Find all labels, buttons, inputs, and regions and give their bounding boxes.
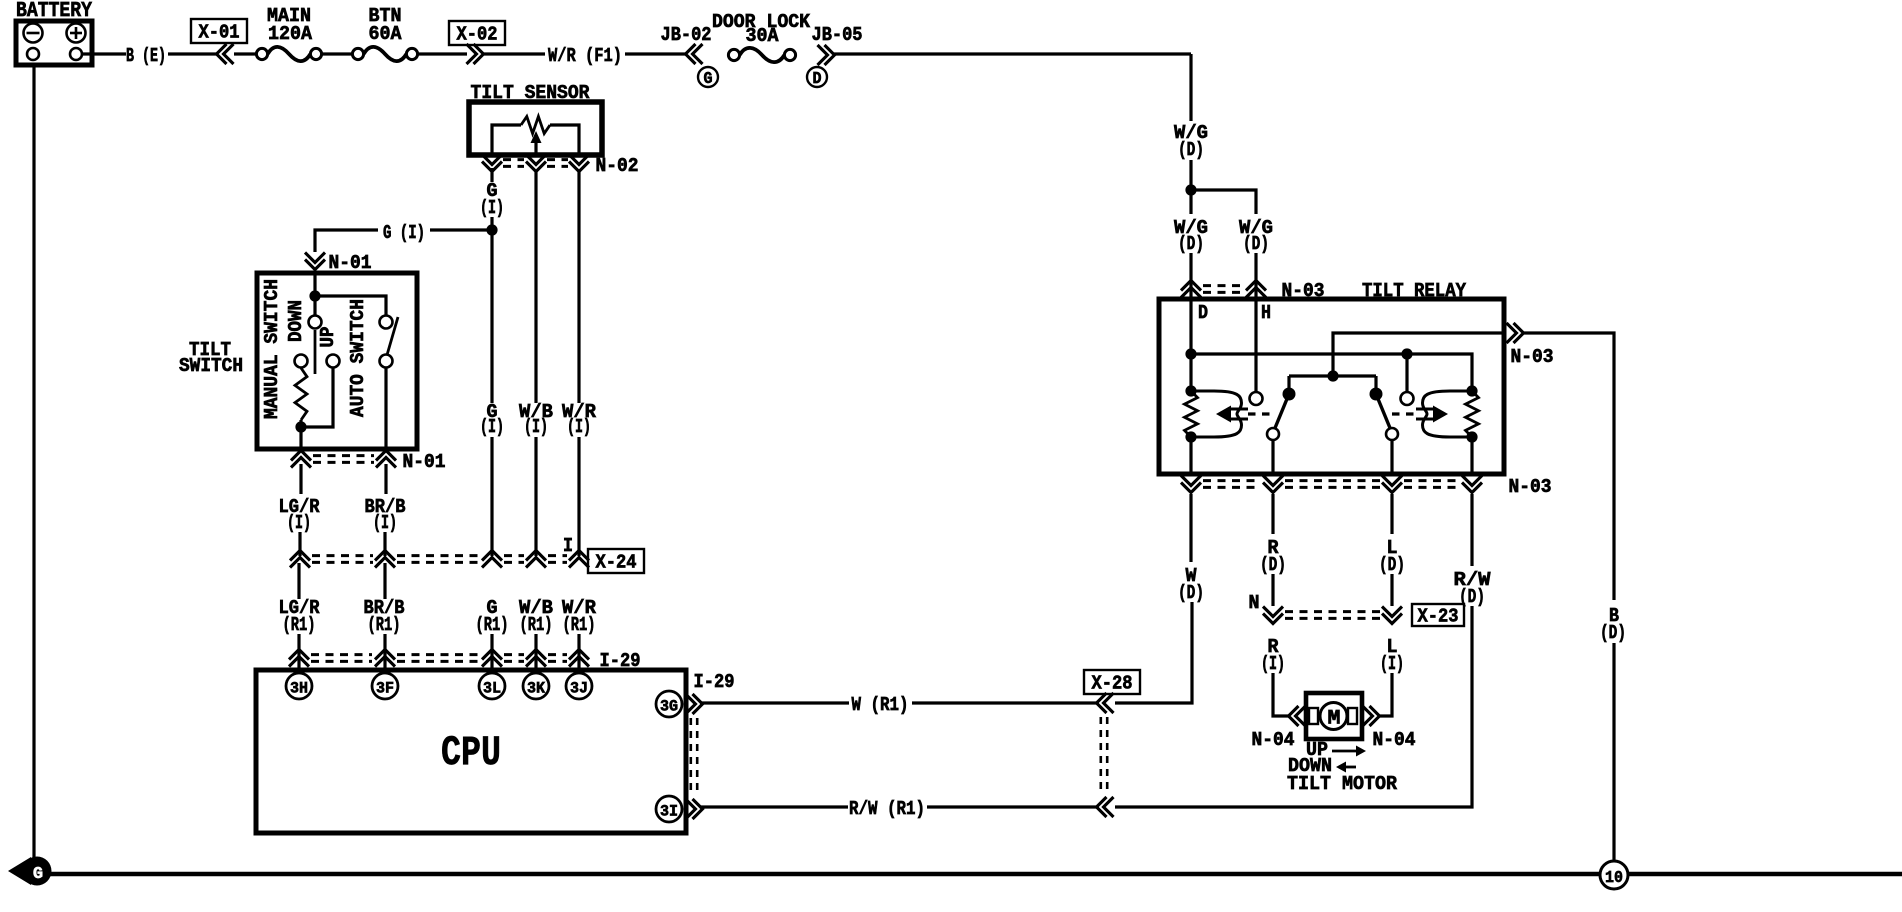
connector N-04 left xyxy=(1252,706,1306,751)
node contact L pivot xyxy=(1283,376,1296,401)
pin 3H xyxy=(286,673,312,699)
wire R/W(D) upper xyxy=(1470,494,1473,566)
svg-text:(D): (D) xyxy=(1243,233,1269,255)
svg-text:N-04: N-04 xyxy=(1252,729,1295,751)
wire coil R to box bottom xyxy=(1470,437,1473,474)
label LG/R (I) xyxy=(279,496,321,534)
label L (I) xyxy=(1380,636,1404,675)
wire L(D) lower xyxy=(1390,574,1393,606)
auto switch top contact xyxy=(380,316,393,329)
svg-text:X-28: X-28 xyxy=(1092,673,1133,695)
ground G symbol xyxy=(8,857,52,886)
wire G to X-24 xyxy=(490,437,493,556)
label W/G (D) upper xyxy=(1174,122,1208,161)
svg-text:N: N xyxy=(1249,592,1260,614)
wire B(D) down to bus xyxy=(1612,643,1615,874)
connector X-23 xyxy=(1263,604,1464,628)
sensor pot wiper xyxy=(531,131,542,153)
node contact R pivot xyxy=(1370,376,1383,401)
wire W/R to I-29 xyxy=(577,634,580,673)
label LG/R (R1) xyxy=(279,597,321,636)
wire 3I to R/W(R1) xyxy=(700,805,848,808)
svg-text:H: H xyxy=(1261,302,1271,324)
label G (I) mid xyxy=(480,401,504,438)
manual blade xyxy=(314,330,317,374)
svg-text:(R1): (R1) xyxy=(563,614,596,636)
connector N-01 top xyxy=(305,252,372,274)
label R/W (D) xyxy=(1454,569,1492,608)
tilt sensor box xyxy=(469,82,602,155)
wire G(I) horizontal xyxy=(315,230,488,252)
label W/R (I) mid xyxy=(562,401,597,438)
wire contact L down xyxy=(1271,440,1274,474)
svg-text:I: I xyxy=(563,535,573,557)
pin H contact circle xyxy=(1250,392,1263,405)
svg-text:(R1): (R1) xyxy=(520,614,553,636)
svg-text:X-02: X-02 xyxy=(457,24,498,46)
svg-text:(I): (I) xyxy=(373,512,397,534)
wire coil L to box bottom xyxy=(1189,437,1192,474)
label W (R1) xyxy=(852,694,909,716)
connector X-01 xyxy=(191,19,247,64)
tilt relay box xyxy=(1159,280,1504,474)
pin 3G xyxy=(656,691,682,717)
wire X-02 to W/R(F1) xyxy=(484,52,545,55)
manual MANUAL contact xyxy=(295,355,308,368)
svg-text:X-01: X-01 xyxy=(199,22,240,44)
label W (D) xyxy=(1178,565,1204,604)
manual DOWN contact xyxy=(309,316,322,329)
label R (I) xyxy=(1261,636,1285,675)
fuse BTN 60A xyxy=(352,5,417,61)
label N xyxy=(1249,592,1260,614)
wire pin D vertical xyxy=(1189,299,1192,391)
wire W/B to I-29 xyxy=(534,634,537,673)
connector X-02 xyxy=(449,21,505,64)
svg-text:N-03: N-03 xyxy=(1511,346,1554,368)
pin 3I xyxy=(656,796,682,822)
wire BR/B to X-24 xyxy=(383,532,386,556)
wire left leg to N-03 xyxy=(1189,190,1192,299)
label W/G (D) right leg xyxy=(1239,217,1273,255)
label B (E) xyxy=(126,45,166,67)
label TILT MOTOR xyxy=(1287,773,1398,795)
wire L(D) upper xyxy=(1390,494,1393,534)
svg-text:10: 10 xyxy=(1605,869,1623,888)
svg-text:(I): (I) xyxy=(287,512,311,534)
label W/B (R1) xyxy=(519,597,553,636)
node G junction xyxy=(486,224,497,235)
wire auto bottom xyxy=(384,368,387,449)
wire G to junction xyxy=(490,168,493,252)
sensor pot resistor xyxy=(492,117,579,154)
ground bus xyxy=(50,872,1902,877)
svg-text:R/W (R1): R/W (R1) xyxy=(849,798,925,820)
battery xyxy=(16,0,92,65)
wire W/G to junction xyxy=(1189,160,1192,190)
svg-text:3G: 3G xyxy=(660,698,678,716)
wire W/R(F1) to JB-02 xyxy=(625,52,686,55)
svg-text:MANUAL SWITCH: MANUAL SWITCH xyxy=(261,279,283,419)
connector N-02 xyxy=(482,155,639,178)
svg-text:3L: 3L xyxy=(483,680,501,698)
wire LG/R upper xyxy=(299,464,302,494)
label G (I) sensor xyxy=(480,180,504,219)
label R (D) xyxy=(1260,537,1286,576)
wire W/R to X-24 xyxy=(577,437,580,556)
label R/W (R1) xyxy=(849,798,925,820)
node coil L top xyxy=(1185,385,1196,396)
svg-text:(D): (D) xyxy=(1379,554,1405,576)
svg-text:(I): (I) xyxy=(1380,653,1404,675)
connector JB-02 xyxy=(661,24,719,89)
pin H label xyxy=(1261,302,1271,324)
fuse MAIN 120A xyxy=(256,5,321,61)
node pin D junction xyxy=(1185,348,1196,359)
wire LG/R to X-24 xyxy=(298,532,301,556)
svg-text:CPU: CPU xyxy=(441,729,501,777)
node relay bus junction xyxy=(1401,348,1412,359)
node coil L bottom xyxy=(1185,431,1196,442)
node manual junction xyxy=(295,421,306,432)
svg-text:W/R (F1): W/R (F1) xyxy=(548,45,622,67)
wire R/W(R1) to X-28 xyxy=(927,805,1099,808)
node switch split xyxy=(309,290,320,301)
label W/G (D) left leg xyxy=(1174,217,1208,255)
wire G to I-29 xyxy=(490,634,493,673)
svg-text:DOWN: DOWN xyxy=(285,300,307,342)
svg-text:N-03: N-03 xyxy=(1509,476,1552,498)
svg-text:3I: 3I xyxy=(660,803,678,821)
svg-text:W (R1): W (R1) xyxy=(852,694,909,716)
svg-text:UP: UP xyxy=(317,327,339,348)
svg-text:(I): (I) xyxy=(524,416,548,438)
svg-text:I-29: I-29 xyxy=(694,671,735,693)
svg-text:JB-02: JB-02 xyxy=(661,24,712,46)
contact R blade xyxy=(1376,394,1390,428)
node ground 10 xyxy=(1600,861,1628,889)
svg-text:(I): (I) xyxy=(480,416,504,438)
connector X-28 xyxy=(1084,670,1140,817)
label W/R (F1) xyxy=(548,45,622,67)
wire W(D) upper xyxy=(1189,494,1192,562)
wire contact R down xyxy=(1390,440,1393,474)
wire exit to right edge xyxy=(1524,333,1614,600)
svg-text:G (I): G (I) xyxy=(383,222,425,244)
wire W/R long xyxy=(577,170,580,403)
tilt switch box xyxy=(257,273,417,449)
svg-text:60A: 60A xyxy=(369,23,403,45)
wire G long xyxy=(490,252,493,403)
svg-text:(R1): (R1) xyxy=(368,614,401,636)
wire X-01 to fuse MAIN xyxy=(234,52,257,55)
relay coil L xyxy=(1192,391,1272,437)
connector N-03 top xyxy=(1181,280,1325,302)
wire JB-05 to corner xyxy=(834,52,1191,55)
wire battery ground xyxy=(32,65,35,858)
label BR/B (R1) xyxy=(364,597,405,636)
label MANUAL SWITCH xyxy=(261,279,283,419)
svg-text:(R1): (R1) xyxy=(283,614,316,636)
aux contact circle xyxy=(1401,392,1414,405)
svg-text:X-23: X-23 xyxy=(1418,606,1459,628)
wire contact bridge xyxy=(1289,374,1376,377)
svg-text:I-29: I-29 xyxy=(600,650,641,672)
wire right leg to N-03 xyxy=(1254,253,1257,299)
wire UP leg xyxy=(301,368,333,427)
svg-text:B (E): B (E) xyxy=(126,45,166,67)
svg-text:(D): (D) xyxy=(1600,622,1626,644)
connector N-03 bottom xyxy=(1181,476,1552,499)
label DOWN xyxy=(285,300,307,342)
node coil R top xyxy=(1466,385,1477,396)
wire relay exit up xyxy=(1333,333,1504,376)
wire R(I) to motor xyxy=(1273,673,1290,716)
svg-text:N-01: N-01 xyxy=(403,451,446,473)
connector N-01 bottom xyxy=(291,451,446,474)
connector X-24 xyxy=(290,535,644,574)
wire LG/R to I-29 xyxy=(297,563,300,673)
svg-text:TILT MOTOR: TILT MOTOR xyxy=(1287,773,1398,795)
wire B(E) to X-01 xyxy=(168,52,217,55)
wire battery to B(E) xyxy=(82,52,126,55)
wire W(D) lower xyxy=(1115,602,1192,703)
svg-text:3K: 3K xyxy=(527,680,545,698)
auto switch blade xyxy=(387,317,398,355)
contact L circle xyxy=(1267,428,1279,440)
wire W(R1) to X-28 xyxy=(912,701,1099,704)
contact L blade xyxy=(1275,394,1289,428)
label G (I) horizontal xyxy=(383,222,425,244)
label G (R1) xyxy=(476,597,509,636)
svg-text:120A: 120A xyxy=(268,23,313,45)
label UP arrow xyxy=(1306,739,1366,761)
connector I-29 row xyxy=(289,650,641,673)
connector JB-05 xyxy=(807,24,863,89)
node exit junction xyxy=(1327,370,1338,381)
wire fuse BTN to X-02 xyxy=(418,52,467,55)
svg-text:D: D xyxy=(813,70,822,89)
svg-text:(D): (D) xyxy=(1178,233,1204,255)
svg-text:(I): (I) xyxy=(1261,653,1285,675)
svg-text:(D): (D) xyxy=(1178,139,1204,161)
svg-text:3F: 3F xyxy=(376,680,394,698)
pin D label xyxy=(1198,302,1208,324)
wire down to W/G label xyxy=(1189,54,1192,121)
relay coil R xyxy=(1392,391,1472,437)
svg-text:(D): (D) xyxy=(1178,582,1204,604)
wire W/B long xyxy=(534,170,537,403)
label W/B (I) mid xyxy=(519,401,553,438)
svg-text:AUTO SWITCH: AUTO SWITCH xyxy=(347,299,369,417)
label TILT SWITCH xyxy=(179,339,243,377)
svg-text:G: G xyxy=(33,865,43,884)
wire relay bus xyxy=(1191,354,1472,391)
wire to auto switch xyxy=(315,296,386,316)
svg-text:(I): (I) xyxy=(567,416,591,438)
wire R/W(D) lower xyxy=(1115,606,1472,807)
svg-text:SWITCH: SWITCH xyxy=(179,355,243,377)
node junction W/G split xyxy=(1185,184,1196,195)
label CPU xyxy=(441,729,501,777)
CPU box xyxy=(256,670,686,833)
wire BR/B upper xyxy=(384,464,387,494)
wire BR/B to I-29 xyxy=(383,563,386,673)
svg-text:X-24: X-24 xyxy=(596,552,637,574)
relay coil R resistor xyxy=(1466,391,1479,437)
wire aux contact drop xyxy=(1405,354,1408,392)
connector N-03 exit xyxy=(1507,323,1554,368)
manual resistor xyxy=(295,368,307,420)
svg-text:N-04: N-04 xyxy=(1373,729,1416,751)
fuse DOOR LOCK 30A xyxy=(712,11,811,62)
svg-text:M: M xyxy=(1328,708,1341,731)
label DOWN arrow xyxy=(1288,755,1356,777)
auto switch bottom contact xyxy=(380,355,393,368)
wire manual bottom xyxy=(299,420,302,449)
svg-text:G: G xyxy=(704,70,713,89)
connector N-04 right xyxy=(1363,706,1416,751)
label UP xyxy=(317,327,339,348)
pin 3J xyxy=(566,673,592,699)
connector I-29 right xyxy=(686,671,735,819)
node coil R bottom xyxy=(1466,431,1477,442)
tilt motor M1 xyxy=(1306,693,1362,739)
pin 3K xyxy=(523,673,549,699)
pin 3L xyxy=(479,673,505,699)
wire R(D) lower xyxy=(1271,574,1274,606)
label W/R (R1) xyxy=(562,597,597,636)
label B (D) xyxy=(1600,605,1626,644)
wire R(D) upper xyxy=(1271,494,1274,534)
wire pin H vertical xyxy=(1254,299,1257,392)
label AUTO SWITCH xyxy=(347,299,369,417)
svg-text:30A: 30A xyxy=(746,25,780,47)
manual UP contact xyxy=(327,355,340,368)
label BR/B (I) xyxy=(365,496,406,534)
svg-text:(I): (I) xyxy=(480,197,504,219)
wire between fuses xyxy=(322,52,353,55)
svg-text:(D): (D) xyxy=(1260,554,1286,576)
svg-text:JB-05: JB-05 xyxy=(812,24,863,46)
pin 3F xyxy=(372,673,398,699)
wire W/B to X-24 xyxy=(534,437,537,556)
svg-text:3J: 3J xyxy=(570,680,588,698)
wire 3G to W(R1) xyxy=(700,701,849,704)
svg-text:N-02: N-02 xyxy=(596,155,639,177)
label L (D) xyxy=(1379,537,1405,576)
wire branch to H leg xyxy=(1191,190,1256,214)
wire switch feed xyxy=(313,273,316,316)
wire L(I) to motor xyxy=(1380,673,1392,716)
relay coil L resistor xyxy=(1185,391,1198,437)
svg-text:3H: 3H xyxy=(290,680,308,698)
contact R circle xyxy=(1386,428,1398,440)
svg-text:D: D xyxy=(1198,302,1208,324)
svg-text:(R1): (R1) xyxy=(476,614,509,636)
